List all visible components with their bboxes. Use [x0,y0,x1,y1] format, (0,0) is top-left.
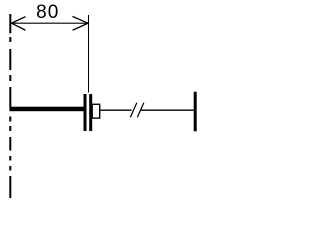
svg-text:80: 80 [36,2,59,23]
